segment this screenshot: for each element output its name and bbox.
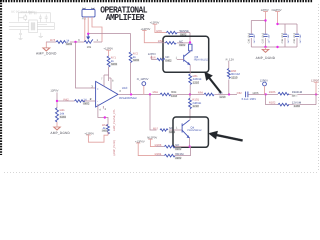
ghost resistor small <box>24 16 27 19</box>
cap pair 1 wires <box>251 21 297 48</box>
svg-text:C39 1210: C39 1210 <box>293 32 296 43</box>
node bus 6 <box>315 93 317 95</box>
power flag +12P0V mid B <box>141 28 158 43</box>
svg-text:2402: 2402 <box>294 104 301 108</box>
arrow callout 1 <box>205 72 222 94</box>
box1 inner top row R62 <box>158 42 190 44</box>
svg-text:R103: R103 <box>155 143 162 147</box>
ground AMP_DGND left <box>45 42 47 48</box>
Q4 emitter wire <box>189 138 191 147</box>
capacitor C39 <box>295 34 299 36</box>
ghost capacitor on top wire <box>35 11 36 14</box>
svg-text:C37 1210: C37 1210 <box>262 32 265 43</box>
ground arrow bottom left <box>53 127 62 131</box>
svg-text:-: - <box>97 100 98 104</box>
svg-text:1210: 1210 <box>171 94 178 98</box>
border right dotted <box>318 4 320 172</box>
svg-text:(AMP_PLN0): (AMP_PLN0) <box>113 140 116 155</box>
node Q4 emitter <box>188 145 190 147</box>
svg-text:1206: 1206 <box>252 91 259 95</box>
svg-text:C36 1210: C36 1210 <box>247 32 250 43</box>
ghost capacitor right 2 <box>45 15 48 23</box>
ground arrow top right <box>265 47 267 49</box>
svg-text:R104: R104 <box>155 152 162 156</box>
node bus 1 <box>130 93 132 95</box>
wire noninv vertical <box>76 42 96 88</box>
resistor R41 <box>56 108 59 122</box>
node gnd rail 1 <box>264 46 266 48</box>
ghost bottom capacitor <box>19 30 22 38</box>
ghost capacitor right 1 <box>39 15 42 23</box>
resistor R51 feedback column <box>107 125 110 135</box>
Q3 base row <box>177 59 184 61</box>
ghost IC right pins <box>37 23 54 30</box>
svg-text:10k: 10k <box>87 45 92 49</box>
svg-text:P_12V: P_12V <box>226 57 235 61</box>
svg-text:2402: 2402 <box>175 156 182 160</box>
node pot left <box>74 41 76 43</box>
svg-text:1uF 16V: 1uF 16V <box>267 34 270 43</box>
svg-text:AMP_DGND: AMP_DGND <box>50 131 70 135</box>
trimpot pins <box>85 17 102 42</box>
svg-text:0402: 0402 <box>133 58 140 62</box>
box2 callout <box>173 117 208 147</box>
ghost circuit top loop wire <box>19 13 51 22</box>
ghost ground 1 <box>18 37 22 40</box>
collector sense box <box>189 44 192 51</box>
svg-text:0402: 0402 <box>165 59 172 63</box>
ghost IC U ghost <box>29 20 38 33</box>
inverting input row <box>57 100 96 102</box>
svg-text:R76: R76 <box>50 38 56 42</box>
svg-text:0.1uF 160V: 0.1uF 160V <box>242 97 257 101</box>
svg-text:0402: 0402 <box>60 115 67 119</box>
svg-text:OPA4650SAR: OPA4650SAR <box>119 96 137 100</box>
capacitor C36 <box>249 34 253 36</box>
ghost capacitor on top wire <box>30 11 31 14</box>
cap pair 2 wires <box>278 24 298 47</box>
svg-text:C38 1210: C38 1210 <box>281 32 284 43</box>
svg-text:1uF 16V: 1uF 16V <box>299 34 302 43</box>
svg-text:0402: 0402 <box>83 101 90 105</box>
resistor R76 <box>56 39 93 43</box>
transistor Q4 <box>182 120 202 138</box>
svg-text:+: + <box>97 87 99 91</box>
resistor R101 bus to box2 <box>189 94 191 98</box>
op-amp power pins top <box>104 75 111 90</box>
ghost ground 2 <box>39 33 43 38</box>
svg-text:1210: 1210 <box>219 95 226 99</box>
node gnd rail 2 <box>276 46 278 48</box>
svg-text:12P0V: 12P0V <box>50 90 58 93</box>
svg-text:R63: R63 <box>156 29 162 33</box>
lower branch to box2 base <box>150 94 157 130</box>
svg-text:U10: U10 <box>122 86 128 90</box>
arrow callout 2 <box>209 131 243 142</box>
svg-text:C32: C32 <box>237 91 243 95</box>
svg-text:AMP_DGND: AMP_DGND <box>256 56 276 60</box>
svg-text:1uF 16V: 1uF 16V <box>253 34 256 43</box>
resistor R71 <box>107 56 110 67</box>
svg-text:R64: R64 <box>198 90 204 94</box>
svg-text:0402: 0402 <box>102 130 108 133</box>
svg-text:0402: 0402 <box>66 42 73 46</box>
border left dashed <box>0 0 2 155</box>
svg-text:O_12P0V: O_12P0V <box>137 78 149 81</box>
box1 callout <box>163 36 209 72</box>
resistor R5A on bus <box>160 93 171 96</box>
node flag2 top <box>276 23 278 25</box>
svg-text:0402: 0402 <box>175 147 182 151</box>
svg-text:1210: 1210 <box>193 81 200 85</box>
resistor R72 <box>129 52 132 63</box>
border bottom dotted <box>4 172 318 174</box>
svg-text:R57: R57 <box>153 126 159 130</box>
ghost IC left pins <box>9 23 29 30</box>
wire R72 column <box>130 34 132 93</box>
node wiper junction <box>87 33 89 35</box>
svg-text:R102: R102 <box>269 100 276 104</box>
svg-text:AMP_PLANE_CTL: AMP_PLANE_CTL <box>113 109 116 131</box>
border top dashed <box>0 0 313 2</box>
right network row 2 <box>266 94 316 104</box>
node Q3 collector <box>189 41 191 43</box>
svg-text:R56: R56 <box>150 56 156 60</box>
box1 rows above: flag wire into R63 <box>177 33 190 43</box>
title <box>100 5 148 23</box>
svg-text:AMP_DGND: AMP_DGND <box>36 52 57 56</box>
svg-text:R42: R42 <box>64 97 70 101</box>
trimpot screw marks <box>83 8 86 10</box>
svg-text:AMPLIFIER: AMPLIFIER <box>106 13 145 23</box>
svg-text:1210: 1210 <box>231 76 238 80</box>
wire input row <box>46 41 102 43</box>
node bus 3 <box>189 93 191 95</box>
node flag1 top <box>264 19 266 21</box>
node bus 4 <box>228 93 230 95</box>
svg-text:PBHV9115Z: PBHV9115Z <box>194 59 209 62</box>
node bus 2 <box>149 93 151 95</box>
trimpot wiper arrow <box>87 35 89 40</box>
op-amp bottom pins <box>98 104 108 125</box>
power flag +12P0V mid A <box>150 22 167 33</box>
output bus <box>118 93 319 95</box>
svg-text:R5A: R5A <box>153 90 159 94</box>
node bus 5 <box>264 93 266 95</box>
svg-text:R105: R105 <box>269 90 276 94</box>
svg-text:R62: R62 <box>158 39 164 43</box>
resistor R61 sense below box1 <box>189 74 192 84</box>
transistor Q3 <box>184 51 209 65</box>
svg-text:0402: 0402 <box>111 62 118 66</box>
op-amp U10 <box>96 81 118 107</box>
svg-text:0402: 0402 <box>179 43 186 47</box>
svg-text:1uF 16V: 1uF 16V <box>287 34 290 43</box>
resistor R42 <box>75 100 85 103</box>
svg-text:PBHV9115Z: PBHV9115Z <box>187 129 202 132</box>
svg-text:1210: 1210 <box>193 104 200 108</box>
capacitor C37 <box>264 34 268 36</box>
Q3 emitter wire down <box>189 65 191 74</box>
capacitor C38 <box>283 34 287 36</box>
trimpot RV1 body box <box>82 9 95 17</box>
power flag +12P0V C <box>103 48 113 56</box>
